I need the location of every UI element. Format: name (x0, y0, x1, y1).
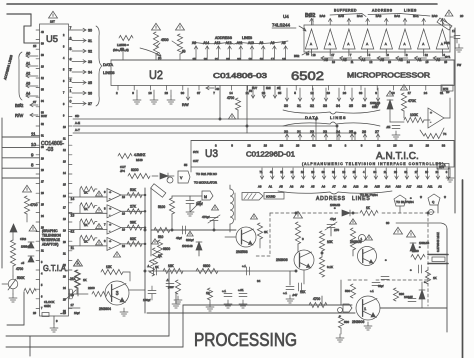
svg-text:A14: A14 (385, 185, 391, 189)
svg-text:41µf: 41µf (176, 236, 182, 240)
svg-text:7: 7 (41, 307, 43, 310)
svg-text:BA2: BA2 (394, 14, 400, 18)
svg-text:74: 74 (443, 132, 447, 136)
svg-text:28: 28 (296, 144, 300, 148)
svg-text:82K: 82K (130, 237, 137, 241)
svg-text:100K: 100K (410, 113, 419, 117)
svg-text:10K: 10K (327, 240, 334, 244)
svg-text:35: 35 (88, 81, 92, 85)
svg-text:LINES: LINES (404, 9, 417, 13)
svg-text:34: 34 (88, 71, 92, 75)
svg-text:A9: A9 (259, 41, 263, 45)
svg-text:BA3: BA3 (376, 14, 382, 18)
svg-text:R/W: R/W (182, 103, 189, 107)
svg-text:31: 31 (88, 39, 92, 43)
svg-text:30: 30 (322, 170, 325, 174)
svg-text:4: 4 (63, 57, 65, 60)
svg-text:33: 33 (323, 104, 327, 108)
svg-text:71: 71 (260, 170, 263, 174)
svg-text:25: 25 (41, 204, 44, 207)
svg-text:38: 38 (328, 144, 332, 148)
svg-text:35: 35 (41, 89, 44, 92)
svg-text:A: A (329, 42, 331, 46)
svg-text:A5: A5 (279, 185, 283, 189)
svg-text:19: 19 (63, 230, 66, 233)
svg-text:3: 3 (63, 46, 65, 49)
svg-text:A5: A5 (343, 58, 347, 62)
svg-text:23: 23 (165, 91, 169, 95)
svg-text:+.1: +.1 (222, 289, 226, 293)
svg-text:8: 8 (231, 144, 233, 148)
svg-text:4700: 4700 (313, 297, 320, 301)
svg-text:6: 6 (41, 296, 43, 299)
svg-text:27: 27 (375, 130, 379, 134)
svg-text:16: 16 (282, 57, 286, 61)
svg-text:15: 15 (426, 60, 429, 64)
svg-text:SYN: SYN (193, 150, 198, 154)
svg-text:7: 7 (104, 223, 106, 227)
svg-text:20: 20 (63, 241, 66, 244)
svg-text:37: 37 (197, 91, 201, 95)
svg-text:3: 3 (104, 239, 106, 243)
svg-text:.2E: .2E (386, 125, 390, 129)
svg-text:30: 30 (88, 29, 92, 33)
svg-text:18: 18 (260, 57, 264, 61)
svg-text:RT5: RT5 (443, 87, 449, 91)
svg-text:17: 17 (71, 303, 75, 307)
svg-text:25: 25 (349, 130, 353, 134)
svg-text:RT5: RT5 (439, 165, 445, 169)
svg-text:DATA: DATA (305, 115, 319, 120)
svg-text:39: 39 (41, 43, 44, 46)
svg-text:A3: A3 (380, 58, 384, 62)
svg-text:12: 12 (63, 149, 66, 152)
svg-text:31: 31 (41, 135, 44, 138)
svg-text:4500: 4500 (161, 38, 169, 42)
svg-text:BA0: BA0 (432, 14, 438, 18)
svg-text:12: 12 (310, 91, 314, 95)
svg-text:A8: A8 (192, 41, 196, 45)
svg-text:11: 11 (63, 138, 66, 141)
svg-text:pmo: pmo (168, 285, 174, 289)
svg-text:A2: A2 (26, 72, 30, 76)
svg-text:39K: 39K (130, 221, 137, 225)
svg-text:5: 5 (70, 47, 72, 51)
svg-text:GEN: GEN (44, 304, 51, 308)
svg-text:28: 28 (311, 170, 314, 174)
svg-text:100µf: 100µf (143, 298, 150, 302)
svg-text:41: 41 (270, 170, 273, 174)
svg-text:A11: A11 (237, 41, 243, 45)
svg-text:PROCESSING: PROCESSING (194, 330, 297, 350)
svg-text:32: 32 (41, 123, 44, 126)
svg-text:A5: A5 (311, 185, 315, 189)
svg-text:28: 28 (262, 91, 266, 95)
svg-text:10: 10 (122, 195, 125, 199)
svg-text:33: 33 (88, 60, 92, 64)
svg-text:19: 19 (249, 57, 253, 61)
svg-text:10: 10 (391, 91, 395, 95)
svg-text:+.1: +.1 (370, 289, 374, 293)
svg-text:22: 22 (332, 170, 335, 174)
svg-text:9: 9 (387, 53, 389, 57)
svg-text:13: 13 (247, 144, 251, 148)
svg-text:1K: 1K (83, 278, 87, 282)
svg-text:820µf: 820µf (186, 238, 194, 242)
svg-text:2200: 2200 (88, 286, 95, 290)
svg-text:SD: SD (75, 114, 80, 118)
svg-text:18K: 18K (168, 264, 175, 268)
svg-text:8: 8 (104, 206, 106, 210)
svg-text:4700: 4700 (16, 267, 23, 271)
svg-text:32: 32 (88, 50, 92, 54)
svg-text:A: A (404, 42, 406, 46)
svg-text:A13: A13 (353, 185, 359, 189)
svg-text:38: 38 (41, 54, 44, 57)
svg-text:6800: 6800 (203, 264, 210, 268)
svg-text:ADDRESS: ADDRESS (316, 196, 346, 202)
svg-text:5: 5 (63, 69, 65, 72)
svg-text:A·T: A·T (75, 128, 80, 132)
svg-text:.1: .1 (166, 278, 169, 282)
svg-text:TELEVISION: TELEVISION (42, 234, 61, 238)
svg-text:24: 24 (435, 170, 438, 174)
svg-text:C012296D-01: C012296D-01 (246, 152, 295, 159)
svg-text:31: 31 (404, 170, 407, 174)
svg-text:1N4148: 1N4148 (182, 244, 193, 248)
svg-text:+.1: +.1 (242, 264, 246, 268)
svg-text:A7: A7 (332, 185, 336, 189)
svg-text:11K: 11K (300, 290, 306, 294)
svg-text:6502: 6502 (291, 69, 324, 83)
svg-text:17: 17 (331, 53, 335, 57)
svg-text:-: - (430, 120, 432, 124)
svg-text:13: 13 (377, 144, 381, 148)
svg-text:13: 13 (63, 161, 66, 164)
svg-text:A·E: A·E (75, 121, 80, 125)
svg-text:MHS: MHS (136, 158, 143, 162)
svg-text:1K: 1K (84, 207, 88, 211)
svg-text:2200: 2200 (412, 249, 419, 253)
svg-text:1K: 1K (366, 206, 371, 210)
svg-text:EMI: EMI (266, 86, 271, 90)
svg-text:1N914: 1N914 (21, 245, 29, 249)
svg-text:16: 16 (63, 195, 66, 198)
svg-text:9: 9 (132, 91, 134, 95)
svg-text:18: 18 (393, 144, 397, 148)
svg-text:A1: A1 (26, 62, 30, 66)
svg-text:30: 30 (237, 57, 241, 61)
svg-text:2N3906: 2N3906 (276, 258, 288, 262)
svg-text:MICROPROCESSOR: MICROPROCESSOR (347, 73, 430, 80)
svg-text:21: 21 (297, 130, 301, 134)
svg-text:36: 36 (362, 104, 366, 108)
svg-text:3: 3 (215, 144, 217, 148)
svg-text:+: + (430, 111, 432, 115)
svg-text:1K: 1K (84, 191, 88, 195)
svg-text:24: 24 (336, 130, 340, 134)
svg-text:18: 18 (63, 218, 66, 221)
svg-text:4700: 4700 (30, 203, 38, 207)
svg-text:TO R21 PIN 3C: TO R21 PIN 3C (196, 172, 218, 176)
svg-text:20: 20 (460, 14, 464, 18)
svg-text:(ALPHANUMERIC TELEVISION INTER: (ALPHANUMERIC TELEVISION INTERFACE CONTR… (302, 162, 444, 166)
svg-text:15: 15 (63, 184, 66, 187)
svg-text:26: 26 (343, 91, 347, 95)
svg-text:23: 23 (63, 276, 66, 279)
svg-text:FUT: FUT (252, 86, 257, 90)
svg-text:A8: A8 (343, 185, 347, 189)
svg-text:37: 37 (88, 102, 92, 106)
svg-text:470pf: 470pf (202, 215, 210, 219)
svg-text:+.1: +.1 (283, 291, 287, 295)
svg-text:10: 10 (122, 244, 125, 248)
svg-text:10: 10 (122, 228, 125, 232)
svg-text:+5: +5 (21, 261, 25, 265)
svg-text:A1: A1 (269, 185, 273, 189)
svg-text:A.N.T.I.C.: A.N.T.I.C. (376, 151, 419, 162)
svg-text:ADAPTOR): ADAPTOR) (42, 243, 58, 247)
svg-text:A0: A0 (300, 185, 304, 189)
svg-text:34: 34 (336, 104, 340, 108)
svg-text:11: 11 (31, 132, 36, 137)
svg-text:270: 270 (334, 228, 339, 232)
svg-text:1: 1 (361, 237, 363, 241)
svg-text:17: 17 (271, 57, 275, 61)
svg-text:Q: Q (432, 200, 435, 204)
svg-text:21: 21 (63, 253, 66, 256)
svg-text:16: 16 (148, 91, 152, 95)
svg-text:5: 5 (294, 91, 296, 95)
svg-text:40: 40 (216, 87, 220, 91)
svg-text:A10: A10 (396, 185, 402, 189)
svg-text:LM556 ≈: LM556 ≈ (117, 43, 129, 47)
svg-text:3: 3 (406, 53, 408, 57)
svg-text:18: 18 (264, 144, 268, 148)
svg-text:7: 7 (350, 53, 352, 57)
svg-text:23: 23 (280, 144, 284, 148)
svg-text:12: 12 (71, 230, 75, 234)
svg-text:3.579545 MHZ: 3.579545 MHZ (436, 232, 440, 252)
svg-text:(A0+,A1+,Ø): (A0+,A1+,Ø) (113, 48, 129, 52)
svg-text:23: 23 (409, 144, 413, 148)
svg-text:7: 7 (70, 26, 72, 30)
svg-text:U3: U3 (205, 148, 218, 160)
svg-text:FW1: FW1 (444, 41, 450, 45)
svg-text:21: 21 (215, 57, 219, 61)
svg-text:23: 23 (394, 170, 397, 174)
svg-text:(E): (E) (182, 49, 186, 53)
svg-text:26: 26 (362, 130, 366, 134)
svg-text:*: * (410, 268, 412, 273)
svg-text:27: 27 (41, 181, 44, 184)
svg-text:31: 31 (297, 104, 301, 108)
svg-text:Ø2: Ø2 (277, 86, 281, 90)
svg-text:A6: A6 (258, 185, 262, 189)
svg-text:30: 30 (386, 221, 390, 225)
svg-text:A: A (441, 42, 443, 46)
svg-text:(F): (F) (158, 56, 161, 60)
svg-text:36: 36 (88, 92, 92, 96)
svg-text:DATA: DATA (103, 62, 113, 67)
svg-text:28: 28 (426, 144, 430, 148)
svg-text:0.1K: 0.1K (327, 265, 333, 269)
svg-text:11: 11 (71, 246, 75, 250)
svg-text:2: 2 (63, 34, 65, 37)
svg-text:17: 17 (63, 207, 66, 210)
svg-text:35: 35 (278, 91, 282, 95)
svg-text:26: 26 (204, 57, 208, 61)
svg-text:21: 21 (41, 250, 44, 253)
svg-text:1K: 1K (84, 223, 88, 227)
svg-text:7: 7 (63, 92, 65, 95)
svg-text:A4: A4 (26, 92, 30, 96)
svg-text:LINES: LINES (103, 70, 115, 75)
svg-text:27: 27 (415, 170, 418, 174)
svg-text:M: M (204, 195, 207, 199)
svg-text:3: 3 (70, 68, 72, 72)
svg-text:U2: U2 (149, 68, 163, 82)
svg-text:8: 8 (446, 170, 448, 174)
svg-text:24: 24 (63, 287, 66, 290)
svg-text:BA6: BA6 (320, 14, 326, 18)
svg-text:560: 560 (344, 320, 349, 324)
svg-text:13: 13 (342, 170, 345, 174)
svg-text:2N3904: 2N3904 (99, 307, 111, 311)
svg-text:510: 510 (158, 235, 164, 239)
svg-text:A: A (310, 42, 312, 46)
svg-text:*: * (420, 196, 422, 202)
svg-text:0: 0 (70, 100, 72, 104)
svg-text:ADDRESS LINES: ADDRESS LINES (3, 55, 13, 81)
svg-text:A3: A3 (290, 185, 294, 189)
svg-text:26: 26 (41, 192, 44, 195)
svg-text:11: 11 (351, 60, 354, 64)
svg-text:9: 9 (63, 115, 65, 118)
svg-text:4: 4 (70, 58, 72, 62)
svg-text:6800: 6800 (163, 247, 170, 251)
svg-text:JP4: JP4 (120, 169, 125, 173)
svg-text:A0: A0 (26, 52, 30, 56)
svg-text:R/W: R/W (41, 114, 47, 118)
svg-text:14: 14 (229, 91, 233, 95)
svg-text:6: 6 (63, 80, 65, 83)
svg-text:13: 13 (71, 213, 75, 217)
svg-text:A2: A2 (399, 58, 403, 62)
svg-text:9: 9 (104, 190, 106, 194)
svg-text:21: 21 (384, 170, 387, 174)
svg-text:10: 10 (332, 60, 335, 64)
svg-text:14: 14 (63, 172, 66, 175)
svg-text:A: A (422, 42, 424, 46)
svg-text:3: 3 (375, 91, 377, 95)
svg-text:27K: 27K (130, 204, 137, 208)
svg-text:50K: 50K (130, 188, 137, 192)
svg-text:A9: A9 (364, 185, 368, 189)
svg-text:B52: B52 (294, 54, 300, 58)
svg-text:8200: 8200 (131, 168, 139, 172)
svg-text:14: 14 (71, 197, 75, 201)
svg-text:*: * (385, 258, 387, 263)
svg-text:18: 18 (313, 53, 317, 57)
svg-text:A: A (385, 42, 387, 46)
svg-text:6: 6 (70, 37, 72, 41)
svg-text:TO B1 PW34: TO B1 PW34 (360, 193, 378, 197)
svg-text:FW: FW (457, 63, 462, 67)
svg-text:A2: A2 (438, 185, 442, 189)
svg-text:0: 0 (302, 237, 304, 241)
svg-text:9: 9 (56, 319, 58, 323)
svg-text:17: 17 (452, 29, 456, 33)
svg-text:2: 2 (70, 79, 72, 83)
svg-text:12K: 12K (106, 265, 113, 269)
svg-text:U4: U4 (283, 14, 289, 19)
svg-text:21K: 21K (70, 277, 77, 281)
svg-text:2N3906: 2N3906 (352, 320, 364, 324)
svg-text:ADDRESS: ADDRESS (372, 9, 393, 13)
svg-text:560: 560 (345, 289, 350, 293)
svg-text:BØ2: BØ2 (305, 13, 316, 19)
svg-text:10: 10 (63, 126, 66, 129)
svg-text:3: 3 (116, 291, 119, 297)
svg-text:A15: A15 (375, 185, 381, 189)
svg-text:24: 24 (424, 91, 428, 95)
svg-text:10: 10 (122, 211, 125, 215)
svg-text:23: 23 (226, 57, 230, 61)
svg-text:SY1: SY1 (445, 55, 451, 59)
svg-text:8: 8 (361, 144, 363, 148)
svg-text:34: 34 (41, 100, 44, 103)
svg-text:A4: A4 (361, 58, 365, 62)
svg-text:500K: 500K (17, 276, 25, 280)
svg-text:*: * (444, 196, 446, 202)
svg-text:25: 25 (193, 57, 197, 61)
svg-text:.047: .047 (292, 293, 298, 297)
svg-text:OUT: OUT (193, 159, 199, 163)
svg-text:23: 23 (323, 130, 327, 134)
svg-text:5: 5 (41, 284, 43, 287)
svg-text:A12: A12 (417, 185, 423, 189)
svg-text:55: 55 (184, 163, 188, 167)
svg-text:10µf: 10µf (74, 311, 80, 315)
svg-text:7: 7 (213, 91, 215, 95)
svg-text:A1: A1 (418, 58, 422, 62)
svg-text:30: 30 (181, 91, 185, 95)
svg-text:U5: U5 (46, 34, 58, 45)
svg-text:37: 37 (33, 100, 37, 104)
svg-text:34: 34 (257, 279, 261, 283)
svg-text:8: 8 (63, 103, 65, 106)
svg-text:33: 33 (312, 144, 316, 148)
svg-text:A: A (366, 42, 368, 46)
svg-text:10: 10 (291, 170, 294, 174)
svg-text:3K: 3K (264, 230, 268, 234)
svg-text:40: 40 (41, 31, 44, 34)
svg-text:22: 22 (310, 130, 314, 134)
svg-text:LINES: LINES (330, 115, 347, 120)
svg-text:C014806-03: C014806-03 (213, 73, 267, 80)
svg-text:SOUND: SOUND (266, 195, 275, 199)
svg-text:13: 13 (41, 66, 44, 69)
svg-text:INTERFACE: INTERFACE (42, 238, 60, 242)
svg-text:*: * (419, 245, 421, 250)
svg-text:18: 18 (301, 170, 304, 174)
svg-text:V: V (180, 176, 183, 180)
svg-text:8: 8 (31, 163, 34, 168)
svg-text:2N3563: 2N3563 (236, 250, 248, 254)
svg-text:13T: 13T (50, 20, 55, 24)
svg-text:BUFFERED: BUFFERED (334, 9, 357, 13)
